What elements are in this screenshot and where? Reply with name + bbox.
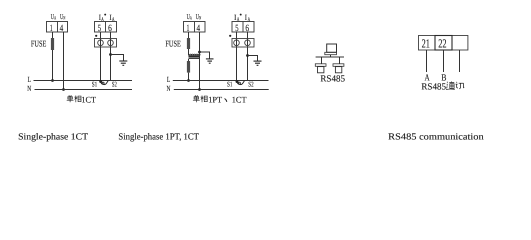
drop to node 2	[339, 57, 341, 64]
terminal block 1/4 (diagram2)	[184, 22, 206, 33]
svg-text:Single-phase 1PT, 1CT: Single-phase 1PT, 1CT	[118, 132, 199, 142]
svg-text:FUSE: FUSE	[165, 39, 180, 49]
fuse F3 (PT primary fuse)	[187, 61, 190, 73]
CT coil on L line (diagram2)	[236, 80, 239, 83]
wire terminal 22 (B)	[443, 50, 445, 72]
junction dot PT ground tap	[198, 51, 201, 54]
CT polarity dot	[95, 35, 97, 37]
terminal block 5/6 (diagram2)	[232, 22, 254, 33]
svg-text:1CT: 1CT	[81, 94, 96, 104]
svg-text:4: 4	[60, 24, 64, 34]
wire terminal blank	[459, 50, 461, 72]
monitor base	[325, 52, 337, 54]
stem monitor to bus	[330, 55, 332, 58]
junction dot on L (diagram2)	[187, 79, 190, 82]
wire fuse to PT coil	[188, 49, 190, 55]
svg-text:FUSE: FUSE	[31, 39, 46, 49]
svg-text:22: 22	[438, 37, 446, 51]
svg-text:21: 21	[422, 37, 430, 51]
svg-text:N: N	[167, 84, 171, 93]
junction dot on L (voltage tap)	[51, 79, 54, 82]
svg-text:N: N	[199, 16, 201, 22]
junction dot on N	[62, 88, 65, 91]
CT polarity dot (diagram2)	[229, 35, 231, 37]
ground (diagram1 CT)	[119, 61, 127, 65]
wire terminal6 to CT S2	[110, 32, 112, 81]
svg-text:5: 5	[235, 24, 238, 34]
fuse F1	[51, 38, 54, 50]
CT coil on L line (diagram1)	[99, 80, 102, 83]
node 1 bar	[315, 64, 326, 67]
wire terminal4 to N line	[63, 32, 65, 90]
svg-text:N: N	[27, 84, 31, 93]
wire PT coil to fuse F3	[188, 59, 190, 61]
L line (diagram1)	[34, 80, 133, 82]
N line (diagram2)	[174, 89, 269, 91]
svg-text:RS485 communication: RS485 communication	[388, 132, 484, 142]
wire terminal 21 (A)	[426, 50, 428, 72]
svg-text:S2: S2	[112, 80, 117, 88]
svg-text:S1: S1	[227, 80, 233, 88]
caption 单相1PT、1CT	[193, 95, 200, 102]
wire fuse F3 to L line	[188, 73, 190, 81]
wire terminal5 to CT S1	[100, 32, 102, 81]
caption 单相1CT	[67, 95, 74, 102]
wire terminal1 to fuse (diagram2)	[188, 32, 190, 38]
screw terminal block (diagram1)	[95, 39, 117, 48]
wire to PT ground	[200, 52, 210, 59]
node 1 box	[318, 67, 324, 73]
terminal strip 21/22/blank	[419, 36, 468, 51]
svg-text:Single-phase 1CT: Single-phase 1CT	[18, 132, 88, 142]
fuse F2 (PT secondary fuse)	[187, 38, 190, 49]
junction dot ground tap (diagram1)	[109, 53, 112, 56]
node 2 box	[335, 67, 341, 73]
wire terminal6 to CT S2 (diagram2)	[247, 32, 249, 81]
screw terminal block (diagram2)	[232, 39, 254, 48]
wire terminal4 to N line (diagram2)	[199, 32, 201, 90]
monitor screen	[327, 44, 337, 52]
svg-text:RS485: RS485	[421, 83, 446, 93]
wire fuse to L line	[52, 50, 54, 81]
PT transformer T1 windings	[189, 55, 200, 57]
junction dot on N (diagram2)	[198, 88, 201, 91]
bus line	[316, 56, 344, 58]
N line (diagram1)	[35, 89, 133, 91]
ground (diagram2 CT)	[254, 61, 262, 65]
wire to ground (diagram1)	[111, 55, 124, 62]
svg-text:RS485: RS485	[320, 74, 345, 84]
svg-text:S2: S2	[248, 80, 254, 88]
wire terminal5 to CT S1 (diagram2)	[236, 32, 238, 81]
drop to node 1	[321, 57, 323, 64]
svg-text:S1: S1	[92, 80, 98, 88]
svg-text:A: A	[54, 16, 56, 22]
svg-text:L: L	[28, 75, 32, 84]
wire terminal1 to fuse	[52, 32, 54, 38]
svg-text:N: N	[63, 16, 65, 22]
junction dot ground tap (diagram2 CT)	[246, 54, 249, 57]
svg-text:A: A	[190, 16, 192, 22]
terminal block 5/6	[95, 22, 117, 33]
svg-text:1CT: 1CT	[232, 94, 247, 104]
svg-text:L: L	[167, 75, 171, 84]
terminal 22 cell (bold)	[435, 36, 452, 51]
node 2 bar	[333, 64, 344, 67]
L line (diagram2)	[173, 80, 269, 82]
terminal block 1/4	[47, 22, 68, 33]
svg-text:1PT: 1PT	[208, 94, 223, 104]
wire to ground (diagram2 CT)	[248, 56, 258, 62]
ground (PT secondary)	[206, 59, 214, 63]
